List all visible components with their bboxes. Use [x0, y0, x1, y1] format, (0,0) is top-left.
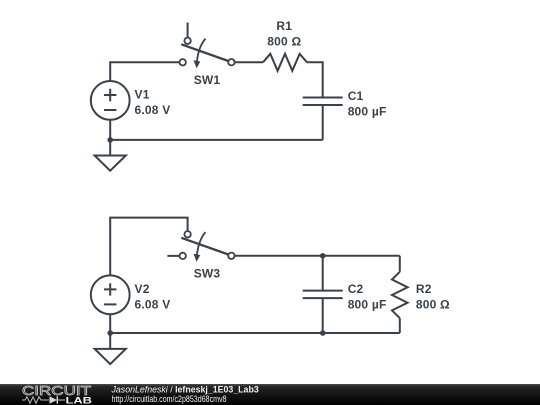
svg-text:R1: R1 — [276, 19, 292, 33]
svg-text:R2: R2 — [416, 282, 432, 296]
svg-text:SW3: SW3 — [194, 267, 221, 281]
junction node C2 bottom — [320, 330, 326, 336]
wire R2 top lead — [399, 256, 401, 272]
resistor R2 — [392, 272, 408, 318]
capacitor C2 — [303, 291, 343, 299]
junction node C2 top — [320, 253, 326, 259]
switch SW3 left throw stub wire — [167, 255, 179, 257]
svg-text:800 µF: 800 µF — [348, 297, 387, 311]
wire bottom rail (bottom circuit) — [110, 332, 400, 334]
wire R1 to C1 top — [307, 62, 323, 97]
svg-text:http://circuitlab.com/c2p853d6: http://circuitlab.com/c2p853d68cmv8 — [112, 394, 227, 404]
wire R2 bottom lead — [399, 318, 401, 333]
voltage source V1 — [91, 81, 130, 120]
svg-text:800 Ω: 800 Ω — [416, 297, 450, 311]
wire C1 bottom to bottom rail — [322, 105, 324, 140]
svg-text:C1: C1 — [348, 89, 364, 103]
svg-text:V2: V2 — [135, 282, 150, 296]
svg-text:800 µF: 800 µF — [348, 104, 387, 118]
wire V2 bottom to ground node — [109, 314, 111, 349]
switch SW3 — [180, 231, 235, 262]
CircuitLab logo resistor zigzag — [22, 397, 49, 403]
ground symbol (bottom circuit) — [95, 349, 126, 364]
svg-text:6.08 V: 6.08 V — [135, 103, 171, 117]
voltage source V2 — [91, 275, 130, 314]
svg-text:800 Ω: 800 Ω — [267, 34, 301, 48]
wire C2 top lead — [322, 256, 324, 291]
ground symbol (top circuit) — [95, 156, 126, 171]
svg-text:LAB: LAB — [66, 395, 93, 405]
wire SW3 right throw to C2/R2 top rail — [235, 255, 400, 257]
svg-text:V1: V1 — [135, 88, 150, 102]
CircuitLab logo diode — [50, 396, 66, 403]
svg-text:6.08 V: 6.08 V — [135, 297, 171, 311]
wire V1 top to SW1 left throw — [110, 62, 179, 81]
wire bottom rail (top circuit) — [110, 139, 323, 141]
junction node V2/ground/bottom rail — [107, 330, 113, 336]
svg-text:SW1: SW1 — [194, 73, 221, 87]
capacitor C1 — [303, 98, 343, 106]
footer bar — [0, 384, 540, 405]
wire SW1 right throw to R1 — [235, 61, 263, 63]
svg-text:C2: C2 — [348, 282, 364, 296]
wire V2 top to SW3 common — [110, 218, 187, 276]
resistor R1 — [263, 54, 307, 71]
switch SW1 — [180, 38, 235, 69]
junction node V1/ground/bottom rail — [107, 137, 113, 143]
switch SW1 top stub wire — [187, 23, 189, 38]
wire V1 bottom to ground node — [109, 120, 111, 156]
wire C2 bottom lead — [322, 298, 324, 333]
